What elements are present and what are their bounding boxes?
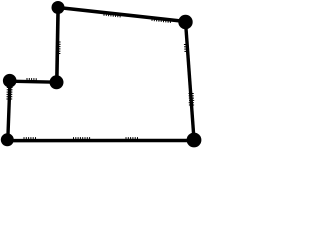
node E (bottom left vertex)	[1, 133, 14, 146]
wire ticks on bottom edge, cluster 3	[126, 137, 138, 142]
node C (middle vertex)	[50, 75, 64, 89]
wire ticks on vertical edge	[56, 42, 61, 54]
wire ticks on right edge, cluster 1	[184, 45, 189, 52]
node D (left vertex)	[3, 74, 17, 88]
wire ticks on middle edge	[27, 78, 36, 83]
wire ticks on bottom edge, cluster 2	[74, 137, 90, 142]
node B (top right vertex)	[178, 15, 192, 29]
node F (bottom right vertex)	[187, 133, 202, 148]
wire ticks on bottom edge, cluster 1	[24, 137, 36, 142]
wire ticks on top edge, cluster 1	[104, 12, 120, 18]
wire (bottom edge F-E)	[8, 139, 194, 143]
wire (middle edge D-C)	[10, 81, 57, 82]
wire (left edge E-D)	[8, 81, 10, 140]
wire ticks on top edge, cluster 2	[152, 17, 170, 23]
wire ticks on right edge, cluster 2	[189, 94, 195, 106]
node A (top left vertex)	[52, 1, 65, 14]
wire ticks on left edge	[6, 88, 12, 100]
wire (right edge B-F)	[186, 22, 195, 140]
wire (top edge A-B)	[58, 8, 186, 22]
wire (vertical edge C-A)	[57, 8, 58, 83]
